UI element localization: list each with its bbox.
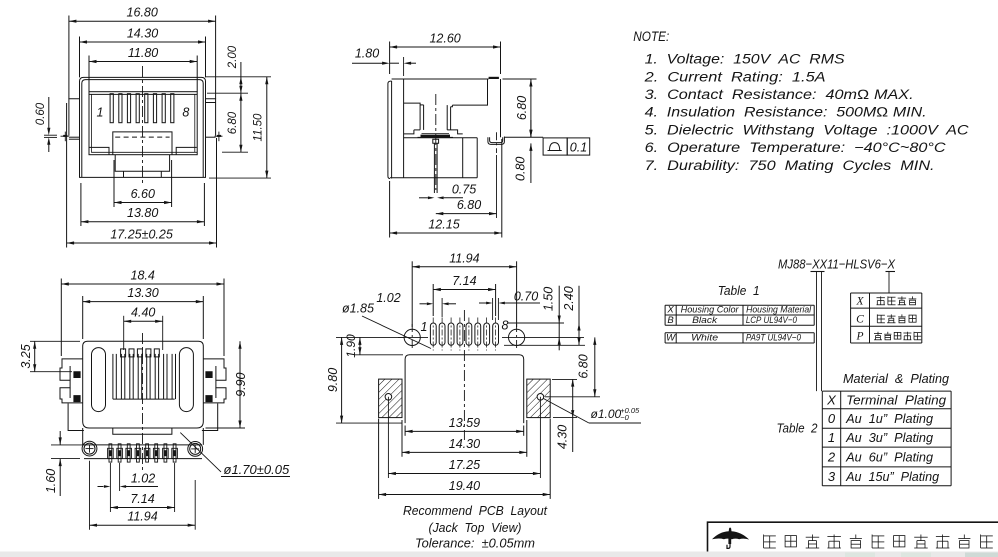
dimension 16.80 — [69, 6, 216, 99]
svg-text:1.90: 1.90 — [344, 334, 358, 358]
dimension 0.80 — [514, 120, 533, 183]
dimension 12.15 — [390, 139, 502, 238]
svg-text:1: 1 — [421, 320, 428, 334]
dimension 9.90 — [206, 341, 249, 428]
svg-text:0.1: 0.1 — [570, 141, 587, 155]
dimension 13.59 — [405, 416, 524, 436]
packaging table cjk row1 bao zhuang fang shi — [877, 296, 885, 304]
svg-text:1: 1 — [97, 106, 104, 120]
dimension 12.60 — [390, 32, 501, 75]
svg-text:LCP UL94V−0: LCP UL94V−0 — [746, 315, 798, 326]
svg-text:3. Contact Resistance: 40mΩ: 3. Contact Resistance: 40mΩ MAX. — [645, 87, 914, 102]
svg-text:12.60: 12.60 — [429, 32, 460, 46]
dimension 11.50 — [209, 77, 271, 178]
svg-text:Material & Plating: Material & Plating — [843, 371, 950, 386]
dimension 0.75 — [419, 183, 476, 200]
dimension 0.70 pcb — [479, 290, 540, 321]
dimension 1.50 pcb — [508, 286, 564, 351]
dimension 17.25 pcb — [388, 458, 540, 475]
svg-text:1.02: 1.02 — [376, 291, 400, 305]
svg-text:C: C — [856, 314, 864, 326]
side view centerline — [435, 94, 437, 190]
svg-text:W: W — [666, 333, 676, 344]
top view centerline — [142, 333, 144, 470]
pcb layout left pad hatched — [379, 379, 402, 478]
svg-text:X: X — [855, 296, 864, 308]
dimension 2.40 pcb — [504, 286, 585, 346]
front view centerline — [142, 66, 144, 185]
svg-text:ø1.70±0.05: ø1.70±0.05 — [224, 462, 290, 477]
dimension 4.40 — [124, 305, 163, 350]
side view front panel — [388, 79, 404, 179]
svg-text:14.30: 14.30 — [127, 27, 158, 41]
front view left solder tab mark — [61, 132, 69, 142]
svg-text:2.40: 2.40 — [562, 286, 576, 311]
top view right mounting ear — [203, 359, 226, 403]
svg-text:1: 1 — [828, 430, 835, 445]
dimension 19.40 — [379, 419, 551, 499]
table 1 — [665, 305, 814, 343]
leader diameter 1.00 — [543, 398, 641, 423]
svg-text:7. Durability: 750 Mating: 7. Durability: 750 Mating Cycles MIN. — [645, 158, 935, 173]
pcb layout right hole — [502, 324, 584, 351]
svg-text:PA9T UL94V−0: PA9T UL94V−0 — [746, 333, 802, 344]
dimension 13.30 — [83, 286, 204, 339]
pcb layout centerline — [463, 310, 465, 440]
svg-text:9.80: 9.80 — [326, 368, 340, 392]
svg-text:(Jack Top View): (Jack Top View) — [429, 521, 522, 535]
side view through-hole pin — [433, 139, 439, 193]
top view left oval slot — [92, 348, 106, 412]
svg-text:11.80: 11.80 — [128, 46, 158, 60]
svg-text:18.4: 18.4 — [131, 269, 155, 283]
svg-text:1.02: 1.02 — [131, 472, 155, 486]
dimension 6.80 side bottom — [436, 155, 497, 218]
svg-text:16.80: 16.80 — [127, 6, 158, 20]
svg-text:Recommend PCB Layout: Recommend PCB Layout — [403, 504, 547, 518]
table 2 — [822, 391, 951, 486]
bottom strip faint tiles — [845, 553, 875, 557]
svg-text:11.94: 11.94 — [449, 251, 479, 265]
side view peg centerline — [496, 132, 498, 153]
top view rear latch tab — [113, 428, 172, 434]
svg-text:1.80: 1.80 — [355, 47, 379, 61]
svg-text:12.15: 12.15 — [428, 218, 459, 232]
front view right solder tab mark — [215, 132, 223, 142]
company logo umbrella bird — [712, 528, 749, 545]
svg-text:13.59: 13.59 — [449, 416, 480, 430]
svg-text:19.40: 19.40 — [449, 479, 480, 493]
side view top-right solder tab — [489, 77, 499, 79]
dimension 11.80 — [89, 46, 197, 92]
bottom grey strip — [0, 552, 998, 557]
company title block box — [708, 522, 998, 557]
svg-text:0.75: 0.75 — [452, 183, 476, 197]
dimension 6.60 — [114, 160, 172, 207]
top view left mounting hole — [82, 441, 97, 456]
leader line from XX to table 2 — [816, 272, 818, 392]
svg-text:5. Dielectric Withstang Vol: 5. Dielectric Withstang Voltage :1000V A… — [645, 122, 969, 137]
dimension 4.30 pcb — [552, 379, 577, 452]
svg-text:0.80: 0.80 — [514, 157, 528, 181]
svg-text:8: 8 — [182, 106, 189, 120]
svg-text:ø1.85: ø1.85 — [342, 302, 374, 316]
svg-text:8: 8 — [502, 319, 509, 333]
top view body outline — [83, 341, 204, 428]
svg-text:0: 0 — [828, 411, 836, 426]
front view left flange — [69, 99, 80, 140]
dimension 14.30 pcb — [402, 420, 527, 457]
pcb layout body outline — [405, 355, 524, 423]
dimension 2.00 / 6.80 right vertical — [206, 45, 272, 152]
top view right oval slot — [179, 348, 193, 412]
svg-text:Au 6u” Plating: Au 6u” Plating — [845, 450, 934, 465]
dimension 7.14 pcb — [433, 274, 495, 316]
packaging table — [851, 293, 922, 343]
flatness tolerance frame 0.1 — [543, 138, 590, 155]
svg-text:13.80: 13.80 — [127, 206, 158, 220]
underline XX — [811, 271, 825, 273]
leader diameter 1.85 — [342, 302, 431, 349]
pcb layout right pad hatched — [527, 379, 550, 478]
dimension 11.94 top view — [90, 461, 196, 530]
svg-text:1.50: 1.50 — [542, 287, 556, 311]
svg-text:2: 2 — [827, 450, 836, 465]
svg-text:11.50: 11.50 — [253, 113, 265, 142]
svg-text:11.94: 11.94 — [127, 510, 157, 524]
top view right mounting hole — [188, 442, 203, 457]
top view contact fingers — [113, 349, 176, 399]
svg-text:13.30: 13.30 — [127, 286, 158, 300]
dimension 7.14 top view — [110, 463, 174, 512]
svg-text:6.80: 6.80 — [515, 96, 529, 120]
svg-text:Au 15u” Plating: Au 15u” Plating — [845, 469, 940, 484]
dimension 14.30 — [80, 27, 206, 78]
svg-text:Au 3u” Plating: Au 3u” Plating — [845, 430, 934, 445]
svg-text:14.30: 14.30 — [449, 437, 480, 451]
dimension 6.80 pcb — [545, 337, 600, 396]
svg-text:P: P — [855, 331, 863, 343]
side view mounting peg — [488, 137, 543, 145]
dimension 1.60 — [44, 431, 84, 496]
dimension 11.94 pcb — [412, 251, 516, 327]
svg-text:1. Voltage: 150V AC RMS: 1. Voltage: 150V AC RMS — [645, 52, 845, 67]
svg-text:MJ88−XX11−HLSV6−X: MJ88−XX11−HLSV6−X — [778, 257, 896, 272]
dimension 18.4 — [61, 269, 224, 357]
front view housing outline — [80, 77, 206, 177]
dimension 17.25 — [67, 103, 217, 248]
svg-text:6. Operature Temperature: −: 6. Operature Temperature: −40°C~80°C — [645, 140, 946, 155]
packaging table cjk row2 juan dai bao zhuang — [877, 314, 885, 322]
svg-text:7.14: 7.14 — [452, 274, 476, 288]
packaging table cjk row3 xi su he bao zhuang — [874, 332, 882, 340]
dimension 3.25 — [19, 341, 80, 371]
svg-text:6.60: 6.60 — [131, 187, 155, 201]
dimension 1.80 — [352, 47, 416, 77]
dimension 1.90 pcb — [344, 334, 403, 358]
svg-text:Table 1: Table 1 — [718, 283, 760, 298]
svg-text:6.80: 6.80 — [577, 354, 591, 378]
underline X — [886, 271, 896, 273]
svg-text:Tolerance: ±0.05mm: Tolerance: ±0.05mm — [415, 537, 535, 551]
front view jack aperture — [89, 92, 197, 155]
svg-text:9.90: 9.90 — [234, 372, 248, 396]
svg-text:White: White — [691, 333, 718, 344]
svg-text:3: 3 — [828, 469, 836, 484]
front view latch opening — [89, 132, 197, 178]
svg-text:0.70: 0.70 — [514, 290, 538, 304]
svg-text:2. Current Rating: 1.5A: 2. Current Rating: 1.5A — [643, 69, 825, 84]
svg-text:4.30: 4.30 — [556, 425, 570, 449]
svg-text:Au 1u” Plating: Au 1u” Plating — [845, 411, 934, 426]
company name cjk dong guan shi he ling dian zi you xian gong si — [764, 535, 776, 549]
svg-text:3.25: 3.25 — [19, 344, 33, 368]
svg-text:Terminal Plating: Terminal Plating — [846, 393, 947, 408]
leader line from X to packaging table — [888, 272, 890, 294]
top view apron lines — [84, 444, 202, 446]
top view left mounting ear — [60, 359, 83, 403]
svg-text:1.60: 1.60 — [44, 469, 58, 493]
leader diameter 1.70 — [180, 433, 290, 477]
svg-text:NOTE:: NOTE: — [633, 28, 669, 44]
top view pin row — [108, 444, 178, 462]
side view body outline — [390, 79, 501, 178]
svg-text:4. Insulation Resistance: 5: 4. Insulation Resistance: 500MΩ MIN. — [645, 105, 927, 120]
svg-text:−0: −0 — [620, 413, 629, 422]
svg-text:ø1.00: ø1.00 — [591, 407, 622, 421]
pcb layout left hole — [398, 324, 428, 351]
front view 8 contact slots — [110, 94, 174, 123]
dimension 0.60 — [35, 97, 57, 152]
top view side wings — [68, 404, 218, 445]
svg-text:17.25±0.25: 17.25±0.25 — [110, 228, 173, 242]
side view contact stack — [421, 135, 451, 138]
dimension 13.80 — [81, 183, 204, 226]
dimension 1.02 top view — [98, 463, 159, 491]
dimension 6.80 side right — [503, 79, 537, 137]
svg-text:B: B — [667, 315, 674, 326]
svg-text:Table 2: Table 2 — [777, 421, 819, 436]
svg-text:4.40: 4.40 — [131, 305, 155, 319]
svg-text:X: X — [826, 393, 837, 408]
svg-text:2.00: 2.00 — [227, 45, 239, 69]
svg-text:0.60: 0.60 — [35, 102, 47, 125]
svg-text:17.25: 17.25 — [449, 458, 480, 472]
pcb layout 8 pads — [430, 318, 498, 351]
dimension 9.80 pcb — [326, 337, 404, 423]
svg-text:Black: Black — [692, 315, 718, 326]
dimension 1.02 pcb — [376, 291, 456, 317]
front view right flange — [206, 99, 216, 138]
svg-text:6.80: 6.80 — [457, 198, 481, 212]
svg-text:7.14: 7.14 — [130, 492, 154, 506]
svg-text:6.80: 6.80 — [227, 111, 239, 134]
